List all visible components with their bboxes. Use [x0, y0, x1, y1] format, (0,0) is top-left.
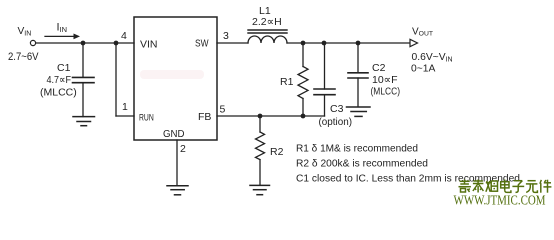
svg-text:2.2∝H: 2.2∝H	[252, 16, 282, 28]
inductor L1	[248, 29, 287, 31]
svg-text:2: 2	[180, 143, 186, 155]
node junction C2 top	[356, 41, 361, 46]
ground under IC GND	[167, 185, 188, 187]
svg-text:10∝F: 10∝F	[372, 74, 398, 86]
svg-text:VOUT: VOUT	[412, 27, 433, 38]
svg-text:GND: GND	[163, 128, 185, 140]
capacitor C1	[82, 43, 84, 77]
ground under C1	[73, 116, 95, 118]
svg-text:C3: C3	[330, 103, 344, 115]
char zi	[512, 181, 524, 193]
svg-text:0~1A: 0~1A	[411, 64, 435, 75]
char tai	[473, 180, 484, 193]
wire GND pin stub	[176, 140, 178, 186]
op-amp U1 IC body	[134, 17, 217, 140]
svg-text:(MLCC): (MLCC)	[40, 87, 77, 99]
svg-text:4: 4	[121, 30, 127, 42]
char dian	[501, 180, 511, 193]
capacitor C3	[324, 43, 326, 89]
wire SW to L1	[217, 42, 248, 44]
svg-text:VIN: VIN	[140, 39, 158, 51]
resistor R1	[302, 43, 304, 67]
char yuan	[526, 181, 538, 193]
wire VIN rail to IC pin4	[36, 42, 134, 44]
watermark chinese characters	[459, 180, 552, 193]
svg-text:RUN: RUN	[139, 113, 154, 123]
svg-text:C1: C1	[57, 62, 71, 74]
svg-text:FB: FB	[198, 111, 211, 123]
resistor R2	[259, 116, 261, 132]
char mu	[486, 181, 498, 192]
ground under R2	[250, 184, 270, 186]
node junction C1	[81, 41, 86, 46]
svg-text:R1: R1	[280, 76, 294, 88]
svg-text:1: 1	[122, 101, 128, 113]
svg-text:3: 3	[223, 30, 229, 42]
svg-text:SW: SW	[195, 38, 209, 50]
current arrow IIN	[45, 35, 74, 37]
artifact faint smudge inside IC	[140, 70, 204, 79]
svg-text:WWW.JTMIC.COM: WWW.JTMIC.COM	[454, 193, 546, 208]
wire RUN branch	[115, 43, 117, 116]
ground under C2	[347, 106, 371, 108]
node junction C3 top	[322, 41, 327, 46]
svg-text:4.7∝F: 4.7∝F	[47, 74, 72, 86]
svg-text:R2 δ 200k& is recommended: R2 δ 200k& is recommended	[296, 158, 428, 170]
node VIN terminal	[30, 40, 35, 45]
node junction RUN branch	[114, 41, 119, 46]
svg-text:R2: R2	[270, 146, 284, 158]
svg-text:2.7~6V: 2.7~6V	[8, 51, 39, 63]
char jia	[459, 180, 471, 193]
svg-text:5: 5	[220, 104, 226, 116]
svg-text:VIN: VIN	[18, 26, 32, 37]
svg-text:(option): (option)	[319, 116, 353, 128]
char jian	[540, 180, 552, 193]
wire L1 to VOUT	[287, 42, 410, 44]
wire FB net	[217, 115, 325, 117]
node junction R1 bottom	[301, 114, 306, 119]
node junction R1 top	[301, 41, 306, 46]
svg-text:C2: C2	[372, 62, 386, 74]
VOUT arrow	[410, 39, 418, 46]
capacitor C2	[357, 43, 359, 73]
svg-text:(MLCC): (MLCC)	[371, 87, 401, 98]
node junction R2	[258, 114, 263, 119]
svg-text:0.6V~VIN: 0.6V~VIN	[412, 52, 453, 63]
svg-text:IIN: IIN	[57, 22, 68, 35]
svg-text:R1 δ 1M& is recommended: R1 δ 1M& is recommended	[296, 143, 418, 155]
